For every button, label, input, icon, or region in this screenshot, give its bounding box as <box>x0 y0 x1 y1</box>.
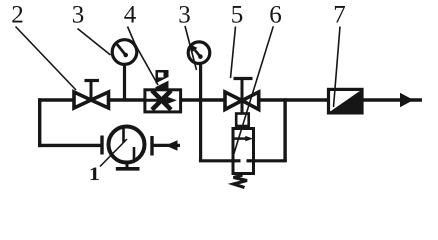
svg-text:1: 1 <box>89 164 100 185</box>
relief valve U6 body <box>233 129 254 174</box>
leader line for label 2 <box>16 27 77 91</box>
valve Q5 bowtie <box>225 92 259 110</box>
gauge U3b circle <box>188 42 210 64</box>
wire: bottom loop to compressor <box>38 144 101 147</box>
valve Q5 handle cap <box>234 77 253 80</box>
compressor M1 lower vane line <box>133 147 136 162</box>
gauge U3b needle <box>195 50 201 57</box>
compressor intake arrowhead <box>166 140 178 150</box>
compressor M1 right flange <box>150 136 153 156</box>
compressor M1 upper vane line <box>122 128 125 143</box>
filter-regulator U4 X diagonal 2 <box>152 91 171 110</box>
leader line for label 5 <box>231 27 236 79</box>
svg-text:3: 3 <box>72 2 85 29</box>
filter-regulator U4 X diagonal 1 <box>152 91 171 110</box>
wire: valve Q5 lower stem to relief valve <box>241 101 244 114</box>
filter-regulator U4 spring block white notch square <box>158 73 164 78</box>
filter-regulator U4 body box <box>145 90 181 112</box>
outlet flow arrowhead <box>400 93 414 107</box>
wire: gauge U3a stem <box>123 64 126 100</box>
filter-regulator U4 flow arrow shaft <box>145 99 168 102</box>
lubricator U7 box <box>329 89 363 113</box>
filter-regulator U4 flow arrowhead <box>167 97 177 105</box>
wire: gauge U3b stem and bypass left drop <box>199 63 202 162</box>
relief valve U6 divider / internal arrow shaft <box>233 137 246 140</box>
svg-text:2: 2 <box>11 2 24 29</box>
valve Q5 handle stem <box>241 80 244 100</box>
svg-text:6: 6 <box>269 2 282 29</box>
wire: main line regulator box to valve 5 <box>181 98 226 101</box>
relief valve U6 right port tab <box>247 159 254 162</box>
filter-regulator U4 spring block white diagonal <box>155 79 169 86</box>
wire: bypass right vertical <box>283 98 286 162</box>
svg-text:7: 7 <box>333 2 346 29</box>
leader line for label 3 (gauge U3b) <box>185 26 197 70</box>
wire: main line valve5 to lubricator <box>258 98 329 101</box>
wire: main line segment left of valve 2 <box>38 98 74 101</box>
wire: main line valve2 to regulator box <box>108 98 145 101</box>
relief valve U6 spring <box>234 175 248 188</box>
svg-text:3: 3 <box>178 2 191 29</box>
relief valve U6 top square <box>236 114 249 127</box>
wire: compressor intake line <box>154 144 181 147</box>
leader line for label 6 <box>234 26 274 155</box>
gauge U3b pivot <box>198 54 203 59</box>
valve R2 handle stem <box>90 81 93 99</box>
compressor M1 base bar <box>116 167 140 171</box>
wire: bypass bottom left horizontal <box>199 159 234 162</box>
lubricator U7 filled triangle <box>330 91 361 113</box>
leader line for label 1 <box>100 139 127 167</box>
compressor M1 circle <box>109 127 145 163</box>
wire: left vertical drop <box>38 98 41 147</box>
gauge U3a pivot <box>123 53 128 58</box>
gauge U3a needle <box>116 43 126 56</box>
wire: main line after lubricator with outlet <box>362 98 422 101</box>
leader line for label 3 (gauge U3a) <box>78 29 111 56</box>
leader line for label 4 <box>128 27 159 86</box>
svg-text:4: 4 <box>124 2 137 29</box>
compressor M1 left flange <box>100 136 103 155</box>
gauge U3b needle arrowhead <box>191 45 198 53</box>
gauge U3a circle <box>112 40 137 65</box>
valve R2 handle cap <box>85 79 100 82</box>
valve R2 bowtie <box>74 92 109 108</box>
compressor M1 base stem <box>126 162 129 168</box>
leader line for label 7 <box>334 27 341 108</box>
filter-regulator U4 spring block <box>156 70 169 89</box>
relief valve U6 internal arrowhead <box>245 136 253 142</box>
wire: bypass bottom right horizontal <box>254 159 287 162</box>
relief valve U6 left port tab <box>233 159 241 162</box>
svg-text:5: 5 <box>231 2 244 29</box>
